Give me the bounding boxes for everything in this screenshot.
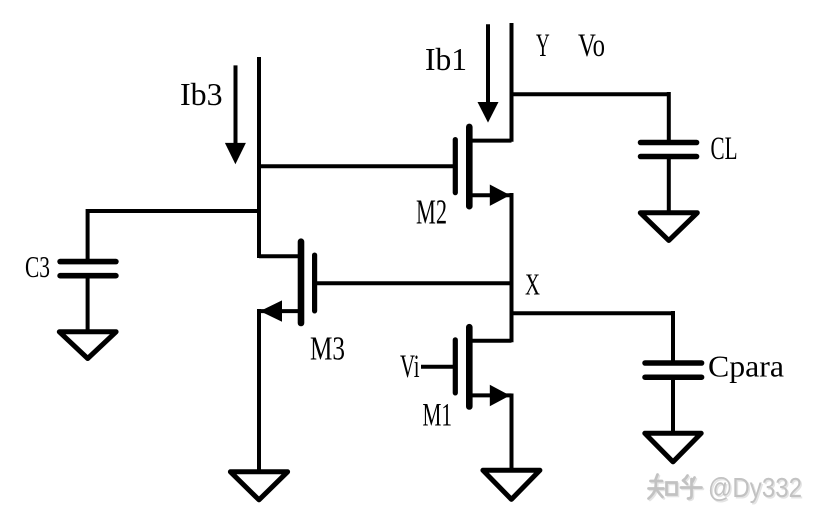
current source Ib3 arrow [225, 65, 246, 164]
watermark 知乎 @Dy332 [649, 472, 804, 504]
svg-text:Vo: Vo [578, 28, 605, 64]
transistor M3 [259, 242, 512, 323]
capacitor Cpara [645, 311, 702, 434]
wire: C3 wire (C3 top to node A) [88, 209, 261, 213]
wire: M3 source drop to ground [257, 309, 261, 472]
svg-text:Ib1: Ib1 [425, 41, 467, 77]
svg-text:X: X [525, 267, 540, 302]
transistor M1 [421, 327, 512, 406]
wire: node X rail (M2 source to M1 drain) [510, 193, 514, 342]
wire: node Y rail top [510, 23, 514, 142]
wire: node A rail (Ib3 / M3 drain vertical) [257, 57, 261, 258]
transistor M2 [455, 127, 511, 206]
svg-text:M2: M2 [416, 193, 447, 232]
current source Ib1 arrow [478, 24, 499, 122]
wire: M1 source drop to ground [510, 394, 514, 471]
ground (below Cpara) [645, 433, 701, 462]
svg-text:Y: Y [536, 28, 550, 64]
ground (below M3) [230, 472, 287, 500]
wire: M2 gate wire (node A to M2 gate) [257, 164, 456, 168]
ground (below M1) [483, 470, 540, 499]
svg-text:@Dy332: @Dy332 [708, 472, 802, 503]
svg-text:CL: CL [711, 131, 738, 167]
svg-text:Cpara: Cpara [708, 349, 784, 384]
svg-text:Vi: Vi [400, 349, 420, 385]
wire: Vo output wire to CL [510, 92, 669, 96]
svg-text:C3: C3 [25, 249, 50, 284]
ground (below C3) [59, 332, 116, 359]
ground (below CL) [640, 213, 697, 241]
capacitor C3 [60, 209, 116, 331]
svg-text:Ib3: Ib3 [180, 76, 223, 112]
wire: node X wire to Cpara [510, 311, 674, 315]
svg-text:M1: M1 [423, 398, 453, 434]
svg-text:M3: M3 [310, 331, 345, 368]
capacitor CL [641, 92, 697, 213]
